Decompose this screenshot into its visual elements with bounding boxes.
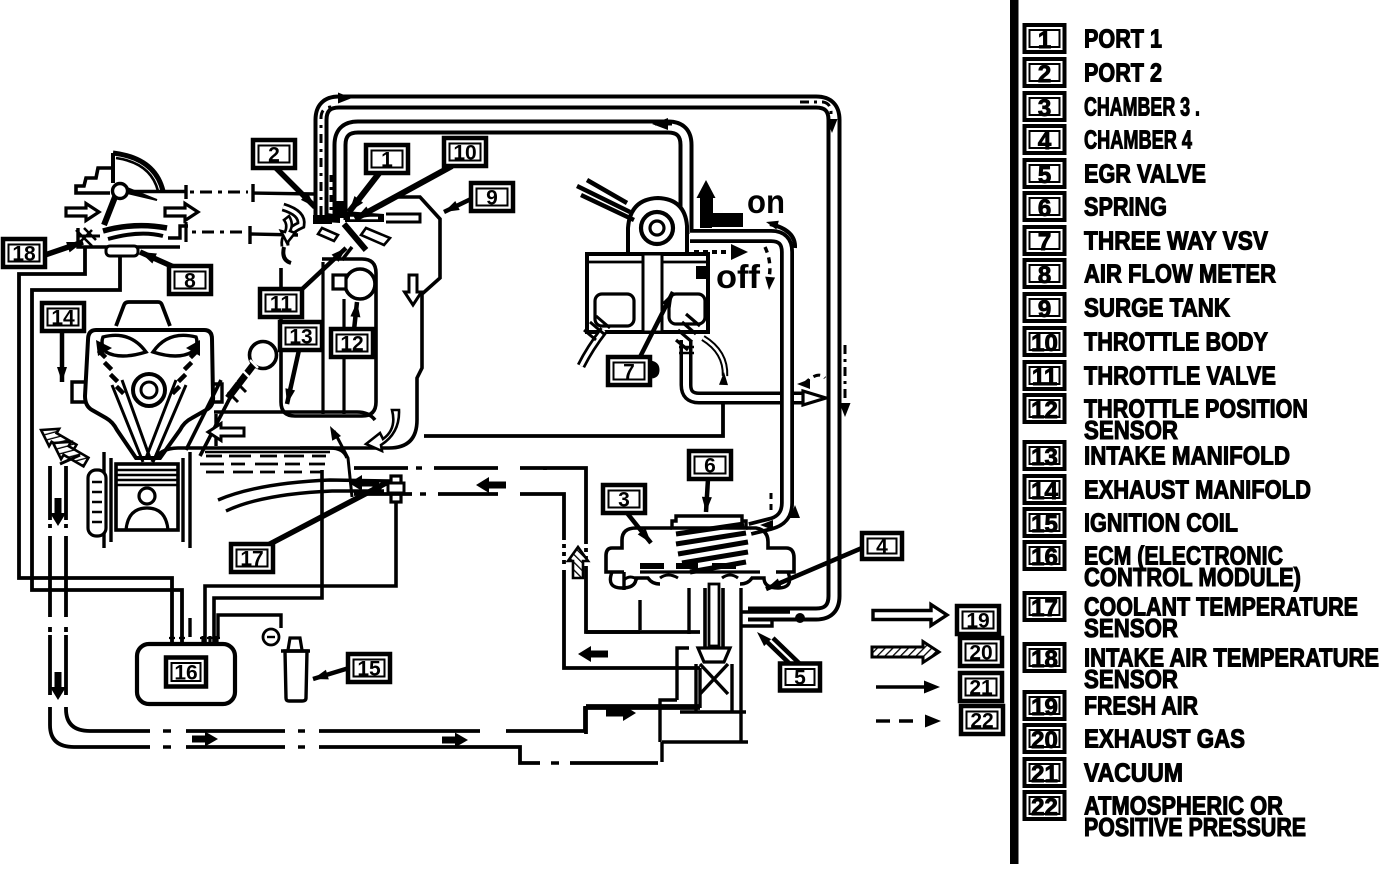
legend item 19: FRESH AIR [1025,692,1065,719]
svg-text:14: 14 [51,307,75,330]
EGR vacuum channel bottom wall [354,494,700,668]
callout 5 -> EGR valve [763,638,790,664]
key symbol: atmospheric dashed arrow [876,719,922,722]
flow arrow: dash-dot atmospheric line inside outer loop right corner [800,102,831,116]
VSV down pipe cap ticks [679,347,694,353]
VSV left chamber port [595,294,634,326]
valve springs dotted left [100,352,122,392]
wire: exhaust manifold stub lines [60,455,80,464]
legend item 2: PORT 2 [1025,59,1065,86]
EGR valve dome outline [606,528,794,572]
legend item 13: INTAKE MANIFOLD [1025,442,1065,469]
flow arrow: fresh air into AFM [66,204,99,221]
legend item 22: ATMOSPHERIC OR [1025,792,1065,819]
svg-text:IGNITION COIL: IGNITION COIL [1084,508,1238,538]
legend item 18: INTAKE AIR TEMPERATURE [1025,644,1065,671]
pipe: inner vacuum loop (port 1 to three-way VSV) [340,127,686,234]
svg-text:2: 2 [1038,61,1051,88]
hatched arrows: exhaust manifold outlet [36,421,79,457]
EGR diaphragm flange wavy [610,572,789,588]
pipe: exhaust gas line left vertical inner wall [66,466,700,731]
VSV right port coil stripes [676,314,700,350]
throttle position sensor (12) body [345,269,375,299]
svg-text:16: 16 [1031,544,1058,571]
svg-text:13: 13 [1031,444,1058,471]
svg-text:10: 10 [1031,330,1058,357]
svg-text:CHAMBER 4: CHAMBER 4 [1084,125,1192,155]
throttle bore walls inside tank [321,262,324,414]
svg-text:16: 16 [174,662,197,685]
off leading black tick [696,266,708,279]
wire: coolant sensor to ECM [205,502,396,644]
svg-text:SPRING: SPRING [1084,192,1167,222]
svg-text:3: 3 [618,489,630,512]
flow arrow: exhaust gas down arrow upper [50,498,66,526]
svg-text:8: 8 [1038,262,1051,289]
EGR left foot [624,572,640,630]
legend item 17: COOLANT TEMPERATURE [1025,593,1065,620]
legend item 5: EGR VALVE [1025,160,1065,187]
callout 10 -> throttle body [355,166,452,219]
dash-dot breaks on exhaust pipe [46,520,70,536]
svg-text:on: on [747,183,785,220]
svg-text:15: 15 [1031,511,1058,538]
flow arrow: dash-dot atmospheric line inside outer loop left corner [321,107,336,215]
air flow meter left bracket [76,168,113,193]
svg-text:9: 9 [486,187,498,210]
svg-text:6: 6 [704,455,716,478]
dash mark near chamber4 pipe [774,618,784,621]
svg-text:6: 6 [1038,195,1051,222]
svg-text:11: 11 [1032,364,1057,391]
legend item 15: IGNITION COIL [1025,509,1065,536]
intake manifold plenum lower line + left wall [152,448,347,462]
ECM harness stubs [172,636,217,644]
water jacket gauge [88,470,106,536]
EGR valve seat X [696,664,732,694]
pipe: VSV to EGR chamber-4 line (down right side) [690,236,787,529]
ECM label box 16 [166,658,206,687]
EGR valve (5) diaphragm cap [672,516,746,528]
dashed curve right of off with down arrow [765,247,770,278]
flow arrow: bottom pipe right arrow 2 [442,733,468,748]
EGR spring (6) hatch [676,524,748,572]
intake manifold (13) plenum upper line [214,412,375,420]
wire: ignition coil negative terminal to ECM [218,615,281,637]
svg-text:THROTTLE VALVE: THROTTLE VALVE [1084,361,1276,391]
legend divider bar [1010,0,1019,864]
callout 8 -> air flow meter [140,252,176,268]
svg-text:3: 3 [1038,95,1051,122]
svg-text:off: off [716,258,761,295]
wire: ECM bottom to right loop [232,700,580,716]
throttle inlet S-hose [283,207,301,246]
throttle body port flange black bar [345,211,384,222]
svg-text:4: 4 [1038,128,1052,155]
callout 9 -> surge tank [444,199,471,212]
EGR pedestal outline [662,668,748,762]
svg-text:CHAMBER 3 .: CHAMBER 3 . [1084,92,1200,122]
valves V shape [112,380,150,462]
svg-text:18: 18 [1031,646,1058,673]
svg-text:20: 20 [1031,727,1058,754]
coolant hose under manifold [218,480,390,500]
legend item 6: SPRING [1025,193,1065,220]
VSV wiring harness diagonals [577,180,634,220]
key symbol: exhaust gas hatched arrow [872,642,939,663]
svg-text:5: 5 [1038,162,1051,189]
svg-text:PORT 1: PORT 1 [1084,24,1162,54]
key symbol: fresh air open arrow [873,605,947,626]
air flow meter (8) fan arc [113,153,163,191]
dashed arrow to off [694,250,726,254]
svg-text:13: 13 [289,326,312,349]
VSV thin hose with up arrow to port pipe [703,338,725,376]
surge tank inner wall rounded rect [281,259,376,416]
IAT sensor crosshatch [76,228,96,246]
curved arrow near on [770,224,795,248]
callout 3 -> chamber 3 [627,513,651,543]
pipe: outer vacuum loop (throttle port 2 to EGR, via top) [321,102,834,614]
flow arrow: exhaust gas down arrow lower [50,672,66,700]
valve springs dotted right [174,352,196,392]
legend item 7: THREE WAY VSV [1025,227,1065,254]
svg-text:12: 12 [340,333,363,356]
legend item 9: SURGE TANK [1025,294,1065,321]
EGR valve poppet [698,648,730,662]
flow arrows: dash-dot along chamber-4 pipe elbow [770,493,773,513]
flow arrow: hatched exhaust-gas up arrow in channel [568,547,588,578]
spark plug tube circle [133,374,165,406]
svg-text:5: 5 [794,667,806,690]
legend item 12: THROTTLE POSITION [1025,395,1065,422]
svg-text:21: 21 [969,677,993,700]
legend item 10: THROTTLE BODY [1025,328,1065,355]
callout 4 -> chamber 4 [766,548,862,589]
svg-text:20: 20 [969,642,992,665]
callout 1 -> port 1 [349,172,380,212]
svg-text:19: 19 [1031,694,1058,721]
callout 12 -> throttle position sensor [354,302,357,330]
svg-text:7: 7 [623,361,635,384]
head right flange stub [212,384,222,402]
svg-text:PORT 2: PORT 2 [1084,58,1162,88]
flow arrow: bottom pipe right arrow 1 [192,732,218,747]
key symbol: vacuum thin arrow [876,685,925,688]
flow arrow: left-pointing arrowhead on inner loop near right elbow [652,118,668,130]
VSV body chambers [587,254,708,332]
exhaust duct under EGR top wall [586,706,700,734]
alignment dash-dot AFM to throttle lower [192,231,246,234]
manifold left wall [214,414,217,446]
wire: branch line below port pipe [424,404,723,436]
svg-text:8: 8 [184,270,196,293]
piston skirt curves [126,508,168,530]
callout 7 -> three way VSV [640,292,673,357]
piston wrist pin [139,488,155,504]
port pipe end caps [313,215,332,224]
EGR valve body walls [677,588,741,668]
svg-text:9: 9 [1038,296,1051,323]
svg-text:15: 15 [357,658,381,681]
curved open arrow surge tank bottom [366,410,399,451]
pipe: exhaust gas line left vertical outer wall [50,466,658,763]
air flow meter damper plate [103,226,167,231]
pipe: VSV lower port pipe to outer loop junction [686,340,806,398]
air flow meter vane arms [104,197,115,225]
flow arrow: fresh air out of AFM [165,204,198,221]
wire: coil wire loop above [188,618,191,637]
legend item 16: ECM (ELECTRONIC [1025,542,1065,569]
EGR diaphragm plate black segments [640,563,736,569]
VSV coil ring [641,212,673,244]
flow arrow: right arrow in exhaust duct [606,705,636,721]
svg-text:EXHAUST MANIFOLD: EXHAUST MANIFOLD [1084,475,1311,505]
svg-text:SENSOR: SENSOR [1084,664,1178,694]
svg-text:1: 1 [381,149,393,172]
svg-text:12: 12 [1031,397,1058,424]
wire: TPS harness to ECM [214,470,322,644]
ignition coil (15) tower cap [288,638,302,650]
callout 15 -> ignition coil [313,668,349,679]
svg-text:7: 7 [1038,229,1051,256]
cam lobes inside head [102,335,146,356]
three way VSV (7) solenoid dome [628,198,687,254]
flow arrow: left arrow into EGR duct [578,646,608,662]
svg-text:FRESH AIR: FRESH AIR [1084,691,1198,721]
callout 17 -> coolant temperature sensor [268,482,388,545]
callout 6 -> spring [706,479,708,512]
flow arrow: vacuum left arrow in channel near manifold [349,475,379,491]
black intake wedges [96,340,200,356]
alignment dash-dot AFM to throttle upper [190,191,248,194]
dash hatch strip under plenum floor [206,455,326,458]
piston crown and rings [116,464,178,530]
svg-text:EGR VALVE: EGR VALVE [1084,159,1206,189]
legend item 21: VACUUM [1025,759,1065,786]
plenum floor second line [205,451,330,454]
svg-text:VACUUM: VACUUM [1084,758,1183,788]
svg-text:19: 19 [966,610,989,633]
svg-text:21: 21 [1031,761,1058,788]
svg-text:10: 10 [453,142,476,165]
svg-text:1: 1 [1038,27,1051,54]
engine cam cover [116,302,170,326]
svg-text:17: 17 [1031,595,1058,622]
svg-text:CONTROL MODULE): CONTROL MODULE) [1084,562,1301,592]
EGR outlet down walls [660,668,741,742]
wire: air flow meter signal to ECM [32,257,182,644]
svg-text:17: 17 [240,548,263,571]
callout 11 -> throttle valve [299,248,346,292]
EGR vacuum channel top wall (manifold to EGR valve) [354,468,700,632]
svg-text:14: 14 [1031,478,1058,505]
flow arrow: vacuum left arrow in channel mid [476,477,506,493]
legend item 14: EXHAUST MANIFOLD [1025,476,1065,503]
legend item 20: EXHAUST GAS [1025,725,1065,752]
callout 2 -> port 2 [276,168,315,207]
EGR valve stem [705,588,723,648]
svg-text:SENSOR: SENSOR [1084,613,1178,643]
svg-text:2: 2 [268,144,280,167]
'on' thick flow elbow [700,213,743,228]
svg-text:11: 11 [270,293,293,316]
hose from throttle down-left to manifold [283,247,291,263]
dash-dot gaps on channel walls [408,465,434,472]
svg-text:SURGE TANK: SURGE TANK [1084,293,1230,323]
air flow meter housing bottom [78,228,180,247]
legend item 4: CHAMBER 4 [1025,126,1065,153]
dipstick ball [250,342,277,369]
vacuum leader into plenum floor [334,431,352,497]
coolant temperature sensor (17) [391,476,401,502]
svg-text:POSITIVE PRESSURE: POSITIVE PRESSURE [1084,812,1306,842]
legend item 8: AIR FLOW METER [1025,260,1065,287]
engine cylinder head outline [85,330,213,458]
legend item 11: THROTTLE VALVE [1025,362,1065,389]
air flow meter measuring plate pivot [113,184,128,199]
minus terminal symbol [263,629,279,645]
ignition coil body [285,651,307,701]
intake runner from plenum to head [186,380,221,450]
throttle body (10) center dash line [330,175,333,214]
junction dot on chamber-4 pipe [795,613,805,623]
EGR supply duct lower-left walls [586,630,640,634]
VSV right chamber port [669,294,705,324]
intake air temp sensor housing under AFM [106,246,138,256]
chamber 4 region lines [741,612,790,626]
key callout boxes 19-22 [957,606,999,634]
pipe: tapered port connection into outer loop [803,391,826,405]
svg-text:22: 22 [1031,794,1058,821]
callout 13 -> intake manifold [287,350,299,404]
cylinder walls [104,452,111,548]
VSV left vent hose with coil stripes [581,330,604,366]
open down arrow inside surge tank [405,275,422,305]
surge tank (9) outer boundary [300,197,440,448]
exhaust port stub [72,382,86,402]
svg-text:INTAKE MANIFOLD: INTAKE MANIFOLD [1084,441,1290,471]
open curved arrow at throttle inlet [281,216,295,243]
flow arrow: dash-dot atmospheric line lower right of loop with arrow [844,345,847,400]
callout 18 -> intake air temp sensor [45,242,83,255]
throttle valve (11) butterfly [344,224,366,250]
svg-text:THROTTLE BODY: THROTTLE BODY [1084,327,1268,357]
port flange outline right [386,214,420,222]
ECM (16) box [137,644,235,704]
legend item 1: PORT 1 [1025,25,1065,52]
callout 14 -> exhaust manifold [60,331,65,382]
flow arrow: open left arrow in plenum [208,424,244,441]
svg-text:18: 18 [12,243,36,266]
svg-text:4: 4 [876,536,888,559]
wire: intake air temp sensor to ECM (left) [19,246,172,644]
flow arrow: dashed curve junction near port pipe [804,375,825,384]
svg-text:EXHAUST GAS: EXHAUST GAS [1084,724,1245,754]
air flow meter ledges [128,190,186,194]
legend item 3: CHAMBER 3 . [1025,93,1065,120]
svg-text:22: 22 [970,710,993,733]
dipstick stem [228,364,254,398]
svg-text:AIR FLOW METER: AIR FLOW METER [1084,259,1276,289]
svg-text:THREE WAY VSV: THREE WAY VSV [1084,226,1269,256]
throttle ticks [318,228,338,241]
